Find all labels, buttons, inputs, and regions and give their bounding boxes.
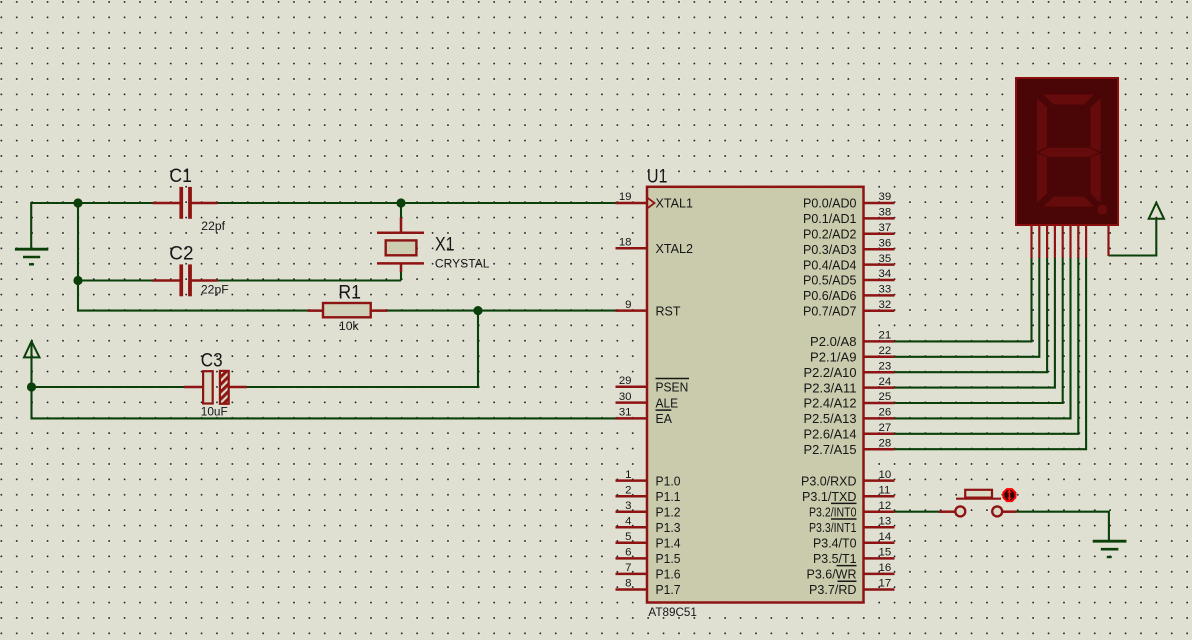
svg-text:24: 24 (879, 376, 892, 388)
7-segment display body (1016, 78, 1118, 225)
pin 27 P2.6/A14 (804, 422, 895, 442)
button toggle indicator (1003, 489, 1015, 501)
push button (939, 490, 1017, 517)
junction node C3/EA (27, 382, 36, 391)
svg-text:X1: X1 (435, 233, 455, 255)
segment C (bottom-right) (1091, 153, 1101, 202)
wire junction x=478 down (477, 311, 479, 389)
display pin 6 stub (1069, 225, 1071, 258)
segment D (bottom) (1044, 197, 1095, 207)
pin 3 P1.2 (616, 500, 681, 520)
svg-text:33: 33 (879, 284, 892, 296)
svg-text:P1.6: P1.6 (656, 567, 681, 582)
pin 1 P1.0 (616, 469, 681, 489)
segment G (middle) (1039, 148, 1100, 157)
svg-text:22pf: 22pf (201, 219, 225, 233)
wire (190, 279, 402, 281)
pin 13 P3.3/INT1 (809, 515, 895, 535)
svg-text:P2.7/A15: P2.7/A15 (804, 442, 857, 457)
segment B (top-right) (1091, 99, 1101, 152)
pin 16 P3.6/WR (807, 562, 895, 582)
svg-text:10: 10 (879, 469, 892, 481)
svg-text:P0.6/AD6: P0.6/AD6 (803, 288, 857, 303)
svg-text:9: 9 (625, 299, 631, 311)
segment F (top-left) (1037, 99, 1047, 152)
svg-text:P0.7/AD7: P0.7/AD7 (803, 304, 857, 319)
pin 26 P2.5/A13 (804, 407, 895, 427)
pin 2 P1.1 (616, 484, 681, 504)
svg-text:P0.2/AD2: P0.2/AD2 (803, 227, 857, 242)
svg-text:U1: U1 (647, 166, 668, 188)
svg-text:36: 36 (879, 237, 892, 249)
pin 28 P2.7/A15 (804, 437, 895, 457)
svg-text:35: 35 (879, 253, 892, 265)
pin 23 P2.2/A10 (804, 360, 895, 380)
svg-text:21: 21 (879, 330, 892, 342)
capacitor C1 (153, 187, 218, 219)
svg-text:P3.5/T1: P3.5/T1 (813, 551, 857, 566)
svg-text:CRYSTAL: CRYSTAL (435, 257, 490, 271)
pin 4 P1.3 (616, 515, 681, 535)
svg-text:32: 32 (879, 299, 892, 311)
svg-text:P3.4/T0: P3.4/T0 (813, 536, 857, 551)
wire display pin 1 to P2.0 (894, 258, 1032, 342)
svg-text:P1.5: P1.5 (656, 551, 681, 566)
svg-text:AT89C51: AT89C51 (648, 605, 697, 619)
svg-text:15: 15 (879, 547, 892, 559)
svg-text:1: 1 (625, 469, 631, 481)
svg-text:P1.7: P1.7 (656, 582, 681, 597)
display pin 2 stub (1038, 225, 1040, 258)
svg-text:P3.1/TXD: P3.1/TXD (802, 489, 857, 504)
svg-text:P3.7/RD: P3.7/RD (809, 582, 857, 597)
svg-text:7: 7 (625, 562, 631, 574)
svg-text:38: 38 (879, 207, 892, 219)
op-amp U1 chip body (647, 187, 864, 603)
svg-text:P1.1: P1.1 (656, 489, 681, 504)
wire P3.2 to button (894, 511, 942, 513)
pin 18 XTAL2 (616, 236, 694, 256)
svg-text:22: 22 (879, 345, 892, 357)
pin 15 P3.5/T1 (813, 547, 895, 567)
svg-text:P2.4/A12: P2.4/A12 (804, 396, 857, 411)
svg-text:P3.0/RXD: P3.0/RXD (801, 473, 857, 488)
wire RST row (78, 310, 617, 312)
clock input marker XTAL1 (648, 198, 655, 208)
pin 21 P2.0/A8 (810, 330, 895, 350)
svg-text:RST: RST (656, 303, 681, 318)
pin 9 RST (616, 299, 681, 319)
svg-text:19: 19 (619, 191, 632, 203)
capacitor C3 (184, 371, 247, 404)
svg-text:3: 3 (625, 500, 631, 512)
wire junction column x=78 (77, 203, 79, 312)
svg-text:C3: C3 (201, 350, 223, 372)
pin 5 P1.4 (616, 531, 681, 551)
svg-text:P2.1/A9: P2.1/A9 (810, 350, 857, 365)
pin 34 P0.5/AD5 (803, 268, 895, 288)
wire display pin 3 to P2.2 (894, 258, 1048, 373)
wire display anode to power arrow (1109, 218, 1157, 256)
resistor R1 (308, 303, 388, 317)
svg-text:31: 31 (619, 407, 632, 419)
pin 38 P0.1/AD1 (803, 207, 895, 227)
svg-text:P3.2/INT0: P3.2/INT0 (809, 504, 857, 519)
svg-text:R1: R1 (338, 282, 361, 304)
pin 24 P2.3/A11 (804, 376, 895, 396)
wire ground to XTAL1 row (31, 203, 182, 249)
junction node RST (473, 306, 482, 315)
junction node A (73, 198, 82, 207)
svg-text:P1.4: P1.4 (656, 536, 681, 551)
svg-text:11: 11 (879, 484, 891, 496)
svg-text:P0.3/AD3: P0.3/AD3 (803, 242, 857, 257)
pin 32 P0.7/AD7 (803, 299, 895, 319)
svg-text:30: 30 (619, 391, 632, 403)
pin 31 EA (616, 407, 673, 427)
svg-text:P0.1/AD1: P0.1/AD1 (803, 211, 857, 226)
svg-text:5: 5 (625, 531, 631, 543)
svg-text:P1.0: P1.0 (656, 473, 681, 488)
svg-text:P2.6/A14: P2.6/A14 (804, 427, 857, 442)
svg-text:23: 23 (879, 360, 892, 372)
svg-text:P3.6/WR: P3.6/WR (807, 567, 857, 582)
pin 30 ALE (616, 391, 679, 411)
pin 11 P3.1/TXD (802, 484, 895, 504)
wire (221, 386, 479, 388)
wire display pin 8 to P2.7 (894, 258, 1087, 450)
pin 10 P3.0/RXD (801, 469, 895, 489)
wire crystal top lead (400, 203, 402, 219)
svg-text:28: 28 (879, 437, 892, 449)
svg-text:6: 6 (625, 547, 631, 559)
segment E (bottom-left) (1037, 153, 1047, 202)
svg-text:P2.5/A13: P2.5/A13 (804, 411, 857, 426)
svg-text:P3.3/INT1: P3.3/INT1 (809, 520, 857, 535)
wire display pin 7 to P2.6 (894, 258, 1079, 434)
display pin 3 stub (1046, 225, 1048, 258)
svg-text:2: 2 (625, 484, 631, 496)
svg-text:26: 26 (879, 407, 892, 419)
svg-text:18: 18 (619, 236, 632, 248)
wire (190, 202, 618, 204)
junction node B (73, 276, 82, 285)
svg-text:ALE: ALE (656, 395, 679, 410)
svg-text:10k: 10k (339, 319, 360, 333)
pin 14 P3.4/T0 (813, 531, 895, 551)
svg-text:4: 4 (625, 515, 631, 527)
wire power arrow to EA (32, 342, 618, 418)
display common pin stub (1107, 225, 1109, 256)
capacitor C2 (153, 264, 218, 296)
svg-text:P1.3: P1.3 (656, 520, 681, 535)
crystal X1 (377, 218, 424, 273)
display pin 1 stub (1030, 225, 1032, 258)
pin 12 P3.2/INT0 (809, 500, 895, 520)
display pin 4 stub (1054, 225, 1056, 258)
svg-text:12: 12 (879, 500, 892, 512)
svg-text:P0.0/AD0: P0.0/AD0 (803, 196, 857, 211)
svg-text:39: 39 (879, 191, 892, 203)
junction node XTAL1/crystal (396, 198, 405, 207)
pin 37 P0.2/AD2 (803, 222, 895, 242)
svg-text:16: 16 (879, 562, 892, 574)
svg-text:8: 8 (625, 578, 631, 590)
svg-text:C2: C2 (169, 242, 193, 264)
svg-text:13: 13 (879, 515, 892, 527)
pin 39 P0.0/AD0 (803, 191, 895, 211)
svg-text:14: 14 (879, 531, 892, 543)
display pin 7 stub (1077, 225, 1079, 258)
segment A (top) (1044, 95, 1095, 105)
svg-text:22pF: 22pF (201, 283, 229, 297)
svg-text:EA: EA (656, 411, 673, 426)
decimal point (1097, 205, 1107, 215)
svg-text:P0.5/AD5: P0.5/AD5 (803, 273, 857, 288)
pin 35 P0.4/AD4 (803, 253, 895, 273)
svg-text:XTAL1: XTAL1 (656, 196, 694, 211)
svg-text:C1: C1 (169, 165, 192, 187)
ground (bottom right) (1093, 541, 1127, 557)
pin 36 P0.3/AD3 (803, 237, 895, 257)
svg-text:P1.2: P1.2 (656, 504, 681, 519)
pin 17 P3.7/RD (809, 578, 895, 598)
svg-text:29: 29 (619, 375, 632, 387)
power arrow (left) (24, 341, 40, 357)
svg-text:34: 34 (879, 268, 892, 280)
wire display pin 2 to P2.1 (894, 258, 1040, 357)
svg-text:17: 17 (879, 578, 892, 590)
wire C3 row (32, 386, 213, 388)
pin 22 P2.1/A9 (810, 345, 895, 365)
svg-text:P0.4/AD4: P0.4/AD4 (803, 257, 857, 272)
display pin 8 stub (1085, 225, 1087, 258)
svg-text:10uF: 10uF (201, 405, 228, 419)
wire button to ground (1017, 512, 1109, 540)
pin 29 PSEN (616, 375, 690, 395)
pin 6 P1.5 (616, 547, 681, 567)
pin 33 P0.6/AD6 (803, 284, 895, 304)
svg-text:PSEN: PSEN (656, 380, 689, 395)
pin 7 P1.6 (616, 562, 681, 582)
svg-text:P2.0/A8: P2.0/A8 (810, 334, 857, 349)
wire crystal bottom elbow (400, 271, 402, 281)
svg-text:25: 25 (879, 391, 892, 403)
power arrow (right, display anode) (1149, 203, 1164, 219)
wire display pin 6 to P2.5 (894, 258, 1071, 419)
svg-text:P2.3/A11: P2.3/A11 (804, 380, 857, 395)
wire display pin 4 to P2.3 (894, 258, 1055, 388)
ground (top left) (15, 249, 48, 264)
svg-text:P2.2/A10: P2.2/A10 (804, 365, 857, 380)
display pin 5 stub (1062, 225, 1064, 258)
svg-text:27: 27 (879, 422, 892, 434)
pin 8 P1.7 (616, 578, 681, 598)
pin 19 XTAL1 (616, 191, 694, 211)
wire C2 row (78, 279, 182, 281)
svg-text:XTAL2: XTAL2 (656, 241, 694, 256)
svg-text:37: 37 (879, 222, 892, 234)
wire display pin 5 to P2.4 (894, 258, 1063, 404)
pin 25 P2.4/A12 (804, 391, 895, 411)
